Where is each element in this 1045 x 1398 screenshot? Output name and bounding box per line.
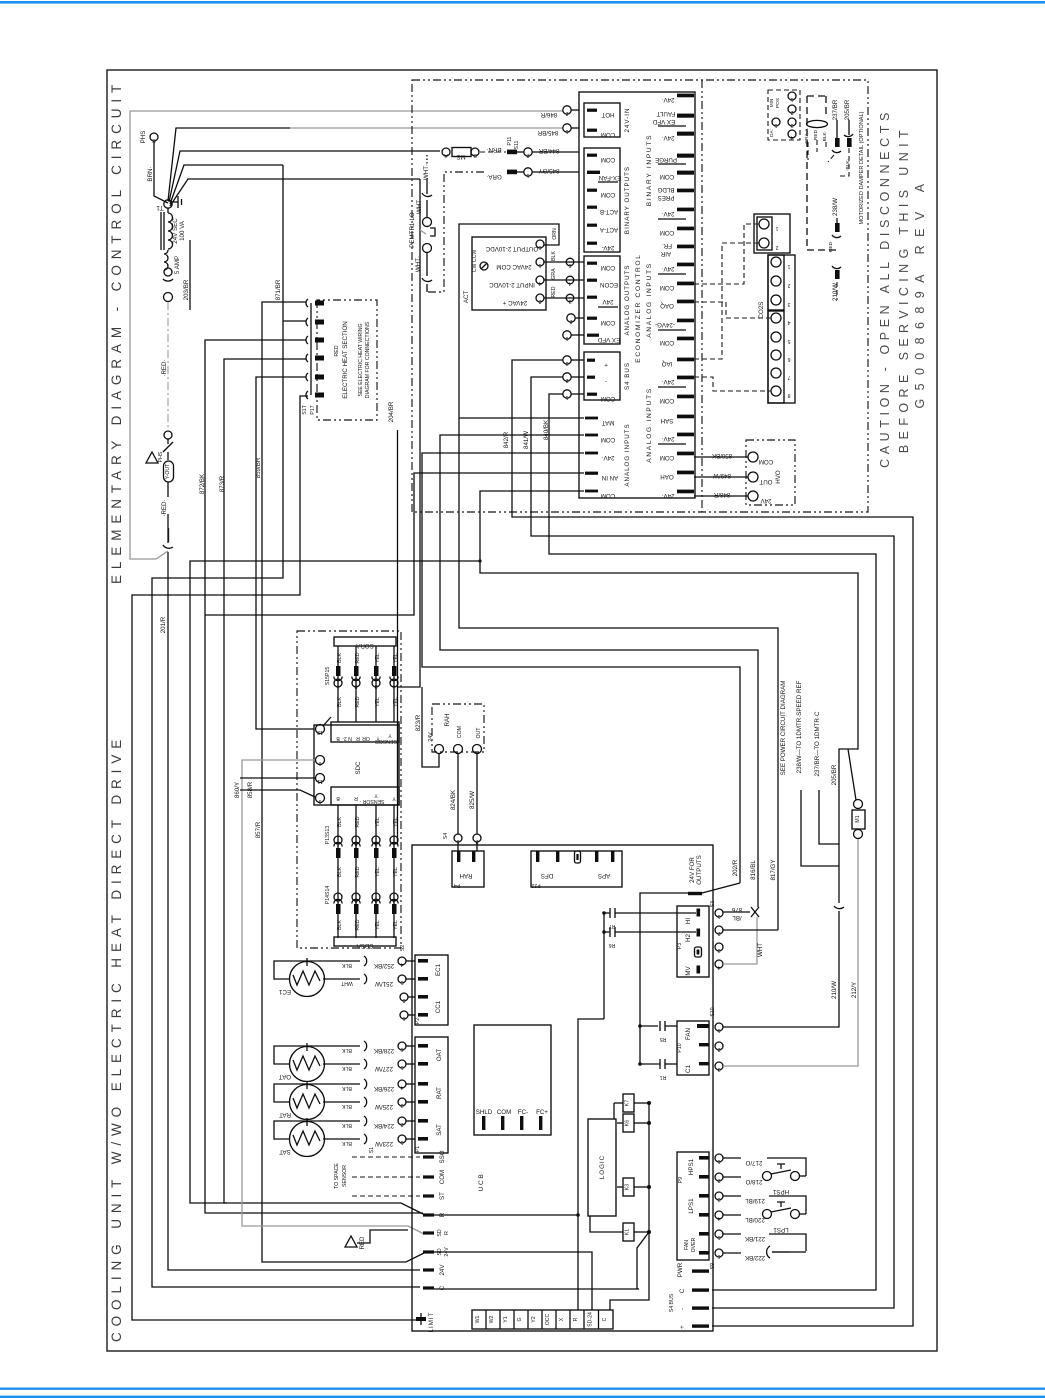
wire COM bottom to 210/W 212/Y nets: [480, 491, 858, 903]
svg-text:PHS: PHS: [140, 131, 147, 144]
svg-text:100 VA: 100 VA: [179, 220, 186, 241]
svg-text:201/R: 201/R: [160, 616, 167, 633]
relay K7: [614, 1094, 651, 1119]
svg-text:HI: HI: [685, 918, 692, 924]
svg-text:R6: R6: [609, 942, 616, 948]
svg-text:FC+: FC+: [536, 1109, 548, 1116]
S4 pin1 824/BK from RAH COM: [443, 753, 462, 851]
svg-text:217/O: 217/O: [745, 1159, 762, 1166]
svg-text:CW CCW: CW CCW: [472, 250, 478, 273]
wire 872/BK to C pad: [199, 340, 423, 1213]
svg-text:GRA·: GRA·: [486, 173, 501, 180]
svg-text:1: 1: [402, 1015, 405, 1021]
wire 876/BL with X splice: [723, 906, 759, 921]
svg-text:825/W: 825/W: [469, 791, 476, 809]
svg-text:4: 4: [400, 1084, 403, 1090]
wire 859/BR 857/R S1T-4 to SD-24V: [255, 302, 424, 1262]
svg-text:ST: ST: [439, 1192, 446, 1200]
svg-text:A: A: [444, 152, 448, 158]
wire RED ACT-2 to 24V: [544, 286, 584, 304]
SDC section dash-dot box: [297, 631, 401, 948]
svg-text:ANALOG INPUTS: ANALOG INPUTS: [624, 423, 631, 486]
svg-text:EC1: EC1: [278, 988, 291, 995]
terminal Y circle: [164, 431, 172, 439]
svg-text:R: R: [356, 735, 360, 741]
svg-text:/BL: /BL: [732, 914, 742, 921]
svg-text:S10: S10: [710, 1007, 716, 1016]
wire 823/R to RAH 24V: [415, 687, 439, 767]
P14S14 connector columns: [325, 886, 399, 938]
caps R7 R6: [602, 908, 696, 1019]
svg-text:T1: T1: [156, 204, 164, 211]
wire 201/R OUT chain down to 24V pad: [160, 552, 420, 1270]
wire to LIMIT: [132, 396, 416, 1320]
svg-text:1: 1: [336, 897, 339, 903]
wire BLK ACT-1 to COM: [544, 251, 584, 268]
wire WHT gray from X to S3-4: [723, 917, 764, 964]
svg-text:OAT: OAT: [279, 1073, 291, 1080]
svg-text:24VAC +: 24VAC +: [502, 299, 527, 306]
RAH P4 connector on UCB: [452, 851, 484, 888]
svg-text:B: B: [473, 152, 477, 158]
svg-text:2: 2: [717, 930, 720, 936]
wire branch y561: [190, 561, 480, 1203]
svg-text:24V·: 24V·: [661, 492, 674, 499]
damper 237/BR chain: [828, 99, 841, 162]
svg-text:850/BK: 850/BK: [711, 452, 732, 459]
svg-text:S2: S2: [400, 945, 406, 951]
svg-text:PHS: PHS: [158, 451, 164, 462]
svg-text:RED: RED: [334, 345, 340, 356]
svg-text:MS: MS: [456, 153, 465, 160]
svg-text:24V·: 24V·: [661, 134, 674, 141]
svg-text:COM: COM: [457, 726, 463, 738]
svg-text:P22: P22: [531, 882, 540, 888]
svg-text:OR: OR: [362, 735, 370, 741]
svg-text:218/O: 218/O: [745, 1178, 762, 1185]
RED triangle near SD R: [345, 1230, 408, 1250]
svg-text:AIR: AIR: [660, 250, 671, 257]
UCB left edge pads SSO..C: [423, 1150, 450, 1290]
svg-text:4: 4: [392, 683, 395, 689]
svg-text:872/BK: 872/BK: [199, 473, 206, 494]
svg-text:ANALOG INPUTS: ANALOG INPUTS: [646, 262, 653, 338]
svg-text:3: 3: [374, 683, 377, 689]
svg-text:YEL: YEL: [393, 817, 399, 827]
svg-text:SORA: SORA: [355, 642, 373, 649]
S10 pins: [710, 1007, 723, 1072]
svg-text:9: 9: [318, 798, 321, 804]
wire fan from T1 to run y151 (to MS A): [169, 151, 440, 202]
svg-text:S4 BUS: S4 BUS: [624, 362, 631, 390]
wire C row to relay bus: [434, 1288, 639, 1290]
S15P15 connector columns: [325, 646, 399, 722]
svg-text:RED: RED: [355, 919, 361, 930]
svg-text:COM: COM: [660, 284, 674, 291]
svg-text:YEL: YEL: [375, 867, 381, 877]
svg-text:BLK: BLK: [337, 920, 343, 930]
svg-text:5: 5: [787, 338, 790, 344]
svg-text:X: X: [559, 1317, 565, 1321]
svg-text:H2: H2: [685, 933, 692, 941]
caps R5 R1: [638, 1021, 677, 1080]
svg-text:COM: COM: [660, 173, 674, 180]
svg-text:24V: 24V: [428, 732, 434, 742]
wire 845/BR gray continuation: [290, 127, 563, 129]
svg-text:LOGIC: LOGIC: [599, 1155, 606, 1179]
svg-text:COM: COM: [759, 458, 773, 465]
svg-text:W2: W2: [489, 1315, 495, 1323]
wire fan from T1 to run y179 (204/BR): [170, 179, 420, 206]
svg-text:2: 2: [402, 997, 405, 1003]
svg-text:P2: P2: [415, 1018, 421, 1024]
wire fan from T1 to run y165 (871/BR): [170, 165, 283, 204]
svg-text:GRA: GRA: [551, 268, 557, 280]
note 237/BR TO 1DMTR-C: [814, 711, 839, 844]
svg-text:BLK: BLK: [342, 1085, 352, 1091]
svg-text:24V: 24V: [602, 298, 614, 305]
svg-text:DIAGRAM FOR CONNECTIONS: DIAGRAM FOR CONNECTIONS: [365, 321, 371, 398]
sensor RAT: [274, 1079, 415, 1120]
svg-text:219/BL: 219/BL: [745, 1197, 765, 1204]
damper long-dash boundary: [807, 96, 837, 250]
svg-text:CO2S: CO2S: [758, 302, 765, 319]
svg-text:FC-: FC-: [518, 1109, 528, 1116]
svg-text:Y2: Y2: [531, 1316, 537, 1322]
svg-text:C1: C1: [685, 1064, 692, 1072]
svg-text:7: 7: [787, 374, 790, 380]
svg-text:202/R: 202/R: [732, 859, 739, 876]
svg-text:BLK: BLK: [337, 653, 343, 663]
svg-text:COM: COM: [601, 264, 615, 271]
relay K3: [617, 1178, 651, 1196]
svg-text:ACT-B: ACT-B: [600, 208, 618, 215]
thermostat terminal strip W1..C: [472, 1310, 613, 1329]
note 238/W TO 1DMTR SPEED REF: [796, 680, 839, 866]
SDC pin 12 with switch: [316, 717, 332, 735]
svg-text:S4: S4: [443, 833, 449, 839]
svg-text:1: 1: [538, 262, 541, 268]
svg-text:P11: P11: [507, 136, 513, 145]
svg-text:P1: P1: [415, 1146, 421, 1152]
svg-text:876: 876: [731, 906, 742, 913]
svg-text:2: 2: [538, 298, 541, 304]
wire S1T-3 to SDC pin12: [256, 377, 314, 729]
svg-text:BRN·: BRN·: [486, 146, 501, 153]
svg-text:R1: R1: [660, 1074, 667, 1080]
svg-text:1: 1: [717, 1158, 720, 1164]
svg-text:ELEMENTARY DIAGRAM - CONTROL C: ELEMENTARY DIAGRAM - CONTROL CIRCUIT: [109, 79, 124, 584]
SDSA box: [334, 937, 396, 949]
svg-text:PWR: PWR: [677, 1262, 684, 1277]
svg-text:2: 2: [775, 244, 778, 250]
svg-text:SENSOR -: SENSOR -: [359, 798, 384, 804]
svg-text:210/W: 210/W: [832, 283, 839, 301]
svg-text:1: 1: [717, 1027, 720, 1033]
ANALOG INPUTS left rows: [585, 417, 631, 499]
svg-text:SAT: SAT: [279, 1148, 291, 1155]
ACT actuator box: [463, 237, 546, 310]
gray wire 846/R inner run: [130, 111, 563, 559]
UCB main board box: [412, 845, 713, 1331]
P1 connector box: [369, 1037, 448, 1153]
svg-text:3: 3: [717, 947, 720, 953]
svg-text:225/W: 225/W: [375, 1103, 393, 1110]
svg-text:841/W: 841/W: [523, 431, 530, 449]
svg-text:WHT: WHT: [416, 200, 423, 214]
svg-text:INPUT 2-10VDC: INPUT 2-10VDC: [489, 281, 535, 288]
RAH sensor dash-dot box: [428, 704, 484, 754]
wire SD24V row to SD-24 cell: [434, 1252, 592, 1310]
svg-text:816/BL: 816/BL: [750, 860, 757, 880]
svg-text:BLK: BLK: [337, 817, 343, 827]
svg-text:COM: COM: [439, 1170, 446, 1184]
S4 bus pin 1 wire 840/BK: [543, 390, 876, 1290]
wire BRN from PHS to T1: [147, 141, 168, 203]
svg-text:226/BK: 226/BK: [373, 1085, 394, 1092]
svg-text:845/BR: 845/BR: [537, 129, 558, 136]
S4 bus pin 2 wire 841/W: [523, 373, 894, 1308]
damper 205/BR chain: [837, 99, 853, 176]
svg-text:YEL: YEL: [375, 920, 381, 930]
svg-text:LPS1: LPS1: [688, 1198, 695, 1214]
pin 846/R: [540, 106, 579, 118]
wire 850/BK: [694, 452, 748, 459]
svg-text:P9: P9: [678, 1177, 684, 1183]
svg-text:RED: RED: [551, 286, 557, 297]
svg-text:EX VFD: EX VFD: [652, 118, 675, 125]
svg-text:2: 2: [717, 1046, 720, 1052]
drawing frame: [107, 70, 937, 1351]
svg-text:EX-FAN: EX-FAN: [599, 174, 621, 181]
svg-text:24V-: 24V-: [602, 244, 615, 251]
svg-text:2: 2: [354, 897, 357, 903]
svg-text:BINARY OUTPUTS: BINARY OUTPUTS: [624, 166, 631, 234]
sensor SAT: [274, 1116, 415, 1157]
junction dots R and SD24V: [576, 1213, 580, 1310]
svg-text:857/R: 857/R: [255, 821, 262, 838]
svg-text:R: R: [444, 1231, 450, 1235]
svg-text:ANALOG INPUTS: ANALOG INPUTS: [646, 387, 653, 463]
node T1: [156, 200, 172, 211]
svg-text:B: B: [336, 735, 340, 741]
svg-text:FAULT: FAULT: [656, 110, 675, 117]
svg-text:COM: COM: [660, 454, 674, 461]
svg-text:-: -: [605, 378, 607, 385]
svg-text:+: +: [604, 361, 608, 368]
svg-text:AN IN: AN IN: [602, 474, 619, 481]
LIMIT pad: [416, 1312, 435, 1333]
svg-text:873/R: 873/R: [219, 475, 226, 492]
MIN POS detail box: [768, 90, 800, 140]
svg-text:COOLING UNIT W/WO ELECTRIC HEA: COOLING UNIT W/WO ELECTRIC HEAT DIRECT D…: [109, 734, 124, 1342]
svg-text:OAQ: OAQ: [660, 302, 674, 309]
svg-text:Y: Y: [374, 792, 378, 798]
SDC pin 6 gray wire 860/Y: [234, 756, 424, 1235]
relay K6: [617, 1114, 651, 1132]
svg-text:1: 1: [336, 683, 339, 689]
svg-text:2: 2: [717, 1177, 720, 1183]
svg-text:LIMIT: LIMIT: [428, 1312, 435, 1333]
svg-text:COM: COM: [660, 229, 674, 236]
svg-text:6: 6: [538, 244, 541, 250]
LOGIC box: [588, 1119, 616, 1216]
svg-text:·RED·: ·RED·: [161, 359, 168, 376]
svg-text:3: 3: [790, 122, 793, 128]
svg-text:ANALOG OUTPUTS: ANALOG OUTPUTS: [624, 264, 631, 335]
S4 BUS sub box: [584, 352, 631, 402]
svg-text:C: C: [602, 1317, 608, 1321]
svg-text:5: 5: [400, 1064, 403, 1070]
svg-text:1: 1: [565, 335, 568, 341]
svg-text:YEL: YEL: [393, 697, 399, 707]
svg-text:Y1: Y1: [503, 1316, 509, 1322]
svg-text:3: 3: [400, 1102, 403, 1108]
svg-text:871/BR: 871/BR: [275, 279, 282, 300]
svg-text:YEL: YEL: [393, 653, 399, 663]
wire MAT to 817/GY net: [459, 417, 584, 419]
svg-text:B: B: [336, 795, 340, 801]
svg-text:846/R: 846/R: [540, 111, 557, 118]
svg-text:1: 1: [717, 913, 720, 919]
svg-text:2: 2: [787, 282, 790, 288]
svg-text:205/BR: 205/BR: [831, 764, 838, 785]
SHLD COM FC- FC+ box: [474, 1025, 551, 1135]
svg-text:SDC: SDC: [355, 761, 362, 775]
svg-text:COM: COM: [601, 436, 615, 443]
svg-text:WHT·: WHT·: [423, 164, 430, 180]
svg-text:COM: COM: [601, 319, 615, 326]
svg-text:ECON: ECON: [600, 281, 618, 288]
svg-text:SD: SD: [437, 1229, 443, 1236]
damper motor ellipse: [807, 120, 828, 127]
svg-text:HPS1: HPS1: [688, 1158, 695, 1175]
svg-text:OCC: OCC: [545, 1313, 551, 1325]
wire 24V to 202/R net: [422, 453, 740, 883]
wire 210/W to S10-1: [723, 911, 839, 1027]
svg-text:COM: COM: [601, 131, 615, 138]
24V FOR OUTPUTS pad and wire: [640, 855, 740, 1064]
svg-text:+: +: [679, 1325, 686, 1329]
svg-text:FR.: FR.: [662, 242, 672, 249]
svg-text:227/W: 227/W: [375, 1065, 393, 1072]
svg-text:BRN·: BRN·: [147, 166, 154, 181]
wire COM to 816/BL net: [440, 435, 758, 907]
svg-text:BLK: BLK: [342, 1047, 352, 1053]
svg-text:Y: Y: [392, 795, 396, 801]
svg-text:RAT: RAT: [279, 1111, 291, 1118]
svg-text:IAQ: IAQ: [661, 360, 672, 367]
wire 873/R S1T-2 to R: [219, 359, 423, 1214]
PWR pad: [677, 1262, 709, 1277]
svg-text:1: 1: [565, 394, 568, 400]
svg-text:859/BR: 859/BR: [255, 457, 262, 478]
svg-text:MV: MV: [685, 965, 692, 975]
svg-text:BEFORE SERVICING THIS UNIT: BEFORE SERVICING THIS UNIT: [897, 125, 911, 453]
svg-text:CAUTION - OPEN ALL DISCONNECTS: CAUTION - OPEN ALL DISCONNECTS: [878, 108, 892, 468]
svg-text:S15P15: S15P15: [325, 667, 331, 686]
economizer inner dash-dot divider: [701, 80, 703, 512]
top blue rule: [0, 1, 1045, 4]
svg-text:P14S14: P14S14: [325, 886, 331, 905]
S4 pin2 825/W from RAH OUT: [469, 753, 481, 851]
svg-text:SAH: SAH: [661, 417, 674, 424]
svg-text:RED: RED: [355, 816, 361, 827]
svg-text:224/BK: 224/BK: [373, 1122, 394, 1129]
svg-text:6: 6: [717, 1253, 720, 1259]
wire AN IN long net to R: [205, 473, 584, 615]
svg-text:1: 1: [526, 172, 529, 178]
wire 212/Y gray M1 to S10-3: [723, 839, 858, 1066]
svg-text:SENSOR: SENSOR: [375, 738, 397, 744]
svg-text:K6: K6: [625, 1120, 631, 1126]
svg-text:C: C: [679, 1288, 686, 1293]
svg-text:RED: RED: [813, 129, 819, 140]
svg-text:-24VG-: -24VG-: [655, 321, 675, 328]
svg-text:GRA-A: GRA-A: [804, 128, 810, 144]
svg-text:210/W: 210/W: [831, 981, 838, 999]
svg-text:RED: RED: [355, 866, 361, 877]
svg-text:204/BR: 204/BR: [388, 401, 395, 422]
S02S 8-pin strip: [758, 255, 795, 403]
svg-text:COM: COM: [601, 395, 615, 402]
svg-text:ORN: ORN: [552, 228, 558, 240]
svg-text:-: -: [679, 1308, 686, 1310]
wire R row to R strip cell: [434, 1019, 604, 1310]
svg-text:·RED·: ·RED·: [828, 240, 834, 254]
svg-text:6: 6: [318, 760, 321, 766]
damper leads GRA-A RED BLK: [804, 128, 828, 160]
svg-text:RAH: RAH: [444, 713, 451, 726]
svg-text:1: 1: [336, 840, 339, 846]
svg-text:HPS1: HPS1: [772, 1188, 789, 1195]
svg-text:OUT: OUT: [759, 478, 772, 485]
svg-text:SAT: SAT: [436, 1124, 443, 1136]
svg-text:MOTORIZED DAMPER DETAIL (OPTIO: MOTORIZED DAMPER DETAIL (OPTIONAL): [859, 111, 865, 224]
svg-text:252/BK: 252/BK: [373, 962, 394, 969]
svg-text:3: 3: [565, 360, 568, 366]
svg-text:4: 4: [400, 961, 403, 967]
svg-text:R5: R5: [660, 1036, 667, 1042]
svg-text:4: 4: [392, 840, 395, 846]
svg-text:24V·: 24V·: [661, 210, 674, 217]
svg-text:RAT: RAT: [436, 1087, 443, 1099]
svg-text:P3: P3: [677, 943, 683, 949]
S9 pins with HPS1 LPS1 switches: [710, 1154, 806, 1269]
wire S3-2 to 817/GY: [723, 929, 778, 931]
svg-text:5: 5: [717, 1234, 720, 1240]
fuse coil 5 AMP: [164, 250, 181, 274]
damper 238/W chain: [828, 198, 841, 254]
svg-text:3: 3: [717, 1196, 720, 1202]
svg-text:860/Y: 860/Y: [234, 782, 241, 798]
svg-text:238/W—TO 1DMTR·SPEED REF: 238/W—TO 1DMTR·SPEED REF: [796, 680, 803, 773]
svg-text:222/BK: 222/BK: [744, 1254, 765, 1261]
svg-text:K7: K7: [625, 1100, 631, 1106]
svg-text:BLK: BLK: [342, 1122, 352, 1128]
svg-text:824/BK: 824/BK: [450, 789, 457, 810]
svg-text:ACT: ACT: [463, 291, 470, 304]
svg-text:ECONOMIZER CONTROL: ECONOMIZER CONTROL: [635, 253, 642, 362]
svg-text:YEL: YEL: [375, 653, 381, 663]
S02S 2-pin connector: [754, 214, 790, 253]
svg-text:K1: K1: [625, 1229, 631, 1235]
P2 connector box: [400, 955, 448, 1025]
S3 pins: [710, 901, 723, 970]
terminal PHS C: [140, 131, 158, 144]
svg-text:COM: COM: [601, 191, 615, 198]
svg-text:24V: 24V: [439, 1264, 446, 1276]
